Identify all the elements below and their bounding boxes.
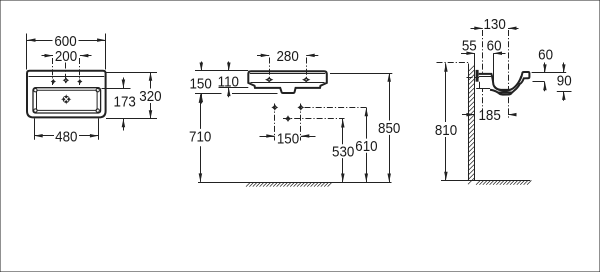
side view: dim 130	[471, 16, 519, 119]
plan view: dim 320	[106, 72, 162, 119]
svg-text:60: 60	[538, 47, 553, 64]
front view: basin outline	[248, 71, 326, 93]
plan view: dim 200	[42, 48, 92, 85]
side view: dim 60 right	[532, 47, 567, 91]
front view: floor line with hatching	[198, 182, 392, 186]
svg-text:610: 610	[355, 138, 377, 155]
side view: fixing bolt axis dashdot	[467, 77, 485, 79]
svg-text:710: 710	[189, 129, 211, 146]
svg-text:130: 130	[483, 16, 505, 33]
plan view: tap hole diamonds	[51, 77, 83, 84]
front view: dims 150 / 110 top left	[189, 62, 277, 104]
side view: dim 90	[557, 63, 572, 101]
side view: floor line with hatching	[441, 180, 531, 184]
front view: dim 150 lower	[260, 104, 316, 148]
plan view: basin outer outline	[27, 71, 106, 118]
front view: dim 850	[330, 73, 400, 182]
plan view: inner basin rim	[33, 88, 101, 113]
svg-text:850: 850	[378, 120, 400, 137]
front view: dim 280	[257, 48, 318, 65]
svg-text:90: 90	[557, 73, 572, 90]
front view: dim 610	[305, 108, 378, 183]
front view: fixing hole diamonds	[271, 104, 304, 122]
svg-text:480: 480	[55, 129, 77, 146]
svg-text:320: 320	[139, 88, 161, 105]
svg-text:530: 530	[332, 144, 354, 161]
plan view: drain symbol	[61, 94, 71, 104]
svg-text:200: 200	[55, 48, 77, 65]
front view: dim 710	[189, 94, 211, 181]
side view: basin profile	[476, 72, 529, 95]
svg-text:150: 150	[189, 76, 211, 93]
plan view: dim 480	[34, 119, 98, 146]
plan view: dim 600	[27, 33, 106, 69]
front view: dim 530	[283, 119, 354, 183]
side view: dims 55 / 60	[461, 38, 506, 88]
side view: wall with hatching	[468, 64, 475, 185]
side view: mounting bracket	[476, 70, 479, 82]
svg-text:185: 185	[478, 107, 500, 124]
svg-text:110: 110	[218, 74, 239, 91]
front view: tap hole diamonds	[265, 77, 310, 83]
svg-text:173: 173	[114, 94, 136, 111]
svg-text:150: 150	[277, 131, 299, 148]
front view: tap hole centrelines	[270, 58, 307, 79]
svg-text:810: 810	[435, 122, 457, 139]
svg-text:280: 280	[276, 48, 298, 65]
side view: dim 810	[435, 63, 470, 181]
plan view: dim 173	[102, 78, 136, 131]
side view: dim 185	[462, 107, 517, 124]
